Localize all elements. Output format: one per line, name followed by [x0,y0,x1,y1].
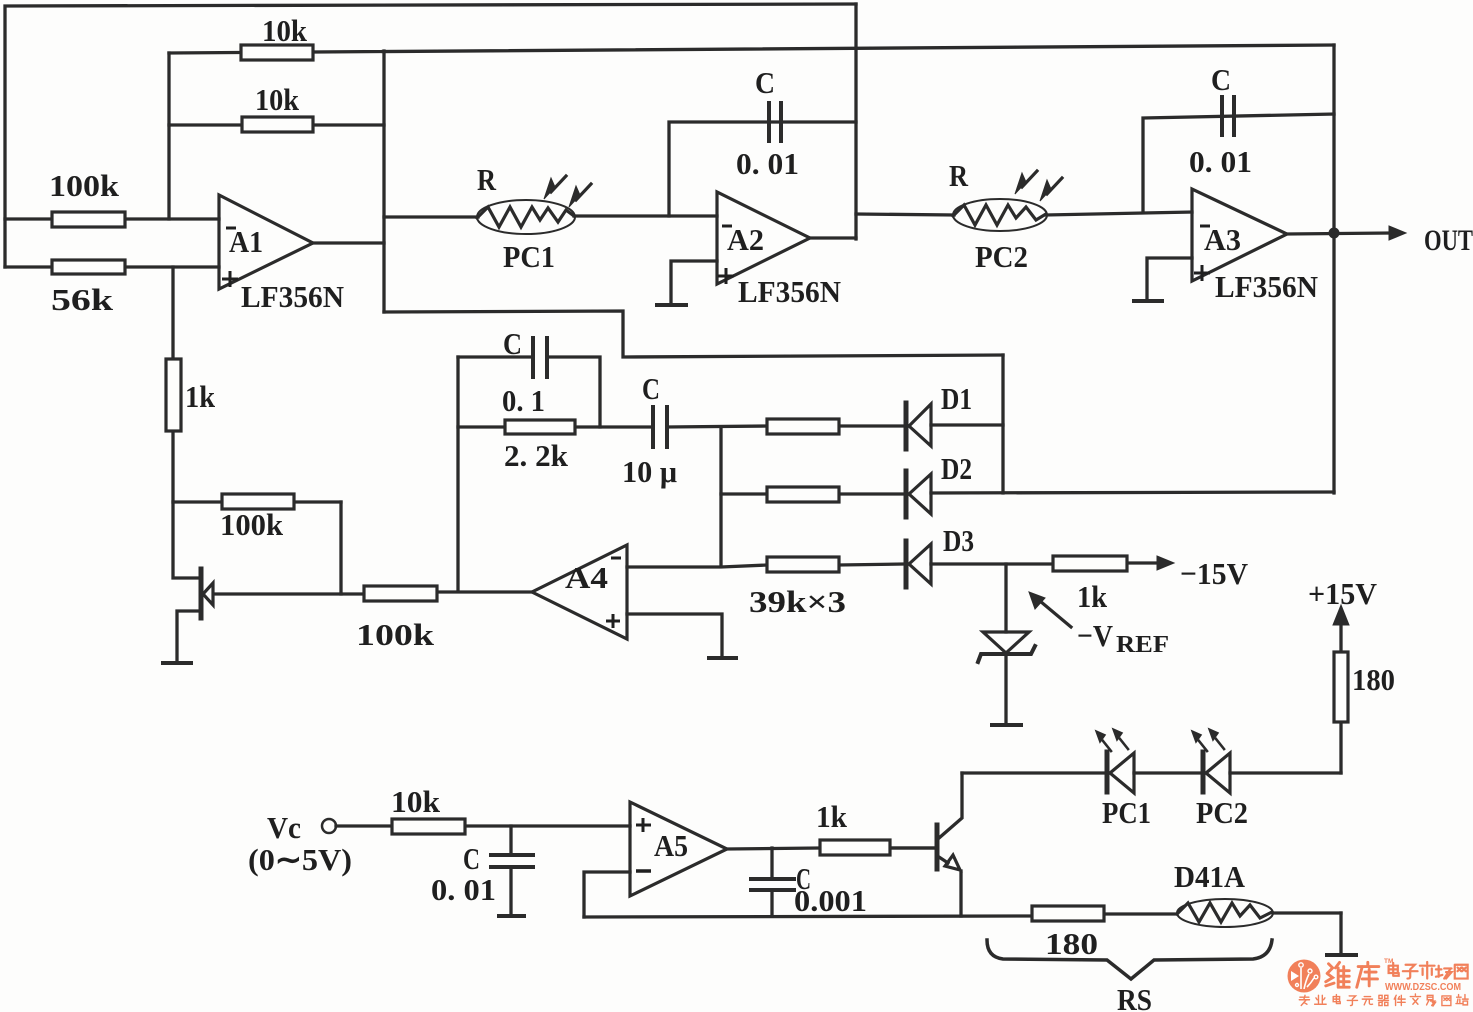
wire PC2 row left [856,214,954,215]
svg-text:2. 2k: 2. 2k [504,438,569,473]
wire A1 inverting node vertical [167,53,170,219]
resistor 39k (D3 row) [767,557,839,572]
light arrows PC1 [544,176,591,207]
wire A1 output [313,241,384,244]
svg-text:10k: 10k [255,82,300,117]
wire OUT bus vertical x=1334 [1332,45,1335,493]
arrow +15V [1333,605,1349,625]
svg-text:TM: TM [1384,958,1393,965]
svg-text:−15V: −15V [1180,556,1249,591]
watermark slogan 专业电子元器件交易网站 [1299,994,1468,1006]
resistor 10k (second feedback) [242,117,313,132]
svg-text:1k: 1k [185,379,216,414]
wire Q2 base from 1k [890,846,934,849]
minus tick A2 [722,225,732,228]
photoresistor PC2 [953,199,1047,231]
photoresistor D41A [1177,899,1273,927]
wire A1 inv input row [5,217,219,220]
terminal Vc [322,819,336,833]
ground A4 [709,656,736,660]
zener diode -VREF [978,632,1035,662]
svg-text:D1: D1 [941,381,972,416]
svg-text:OUT: OUT [1424,224,1473,257]
wire PC2 row right to A3 inv [1046,212,1192,215]
svg-text:C: C [503,326,522,361]
wire Q2 emitter drop [959,871,962,916]
wire C0.01 drop [509,826,512,915]
resistor 100k (Q1 drain to gate) [222,494,294,509]
capacitor C 0.001 [751,879,794,890]
resistor 1k (vertical, A1 + node) [166,359,181,431]
resistor 39k (D1 row) [767,419,839,434]
svg-text:100k: 100k [49,168,120,203]
wire A3 + input to ground [1147,258,1192,300]
wire A2 output [810,236,856,239]
resistor 180 (bottom row) [1032,906,1104,921]
minus tick A1 [226,227,236,230]
diode D2 [906,471,931,517]
svg-text:R: R [477,162,497,197]
svg-text:PC2: PC2 [975,239,1028,274]
wire A1 + node down through 1k [173,267,199,578]
svg-text:D3: D3 [943,523,974,558]
wire Q1 source lead to ground [177,611,200,662]
svg-text:+15V: +15V [1308,576,1378,611]
svg-text:180: 180 [1045,926,1098,961]
wire D41A right to ground [1339,913,1342,954]
transistor Q2 [937,825,960,870]
resistor 1k (A5 output) [820,840,890,855]
svg-text:WWW.DZSC.COM: WWW.DZSC.COM [1385,982,1461,993]
plus tick A1 [222,271,238,287]
svg-text:A4: A4 [565,560,608,595]
svg-text:D2: D2 [941,451,972,486]
wire Vc input row [336,824,630,827]
wire 100k#2 gate row [214,592,364,595]
svg-text:0. 1: 0. 1 [502,383,545,418]
wire vertical x=721 C10u node down to D3 row [719,427,722,564]
wire -15V lead [1127,561,1158,564]
svg-text:0.001: 0.001 [794,883,867,918]
svg-text:REF: REF [1116,632,1169,658]
resistor 10k (Vc input) [392,819,465,834]
wire A3 output to OUT [1287,233,1390,234]
wire A4 + input to ground [627,614,722,657]
wire C0.001 drop [770,848,773,916]
svg-text:100k: 100k [220,507,284,542]
svg-text:LF356N: LF356N [738,274,841,309]
plus tick A4 [606,614,620,628]
svg-text:C: C [755,65,775,100]
resistor 180 (vertical +15V) [1334,652,1348,722]
plus tick A5 [636,818,651,832]
svg-text:10 μ: 10 μ [622,454,677,489]
wire top feedback box A2out to 100k/56k [5,4,856,267]
svg-text:R: R [949,158,969,193]
ground A3 [1134,299,1162,303]
svg-text:56k: 56k [51,282,114,317]
minus tick A3 [1200,225,1210,228]
ground zener [992,723,1021,727]
op-amp A1 [219,195,313,289]
wire A1 + input row [5,265,219,268]
svg-text:C: C [463,841,480,876]
wire A2 output bus vertical x=856 [854,4,857,239]
resistor 100k (A1 inv input) [52,212,125,227]
svg-text:39k×3: 39k×3 [749,584,846,619]
minus tick A5 [636,869,651,873]
svg-text:PC1: PC1 [1102,795,1151,830]
capacitor C 0.01 (A2 feedback) [769,103,781,141]
ground D41A [1327,953,1356,957]
wire Q2 collector [939,773,962,838]
wire A2 + input to ground [671,261,717,304]
wire D3 row A4 inv to junction [627,564,1053,567]
wire PC1 row left [384,215,478,218]
op-amp A4 (points left) [532,545,627,639]
light arrows PC2 [1015,171,1062,201]
svg-text:10k: 10k [262,13,308,48]
resistor 56k (A1 + input) [52,260,125,274]
resistor 10k (top feedback) [241,45,313,60]
op-amp A3 [1192,189,1287,281]
wire A4 left node vertical [456,357,459,591]
capacitor C 0.01 (A3 feedback) [1222,97,1234,135]
wire 2.2k / C0.1 row [458,426,767,427]
wire PC1 row right to A2 inv [574,214,717,217]
wire A1 output bus vertical x=384 [382,51,385,312]
LED PC1 [1096,729,1134,793]
svg-text:RS: RS [1117,982,1152,1012]
watermark logo circle [1288,960,1321,993]
capacitor C 10u [653,407,667,447]
LED PC2 [1192,729,1230,793]
svg-text:1k: 1k [816,799,848,834]
resistor 2.2k [505,420,575,434]
svg-text:(0∼5V): (0∼5V) [248,842,352,877]
arrow -15V [1157,556,1174,570]
ground Q1 [163,661,191,665]
arrow -VREF [1029,592,1071,627]
svg-text:180: 180 [1352,662,1395,697]
photoresistor PC1 [477,200,575,234]
plus tick A2 [718,268,734,284]
svg-text:A5: A5 [654,828,688,863]
watermark text 电子市场网 [1389,962,1468,979]
wire 100k#1 right drop to gate [339,502,342,594]
svg-text:−V: −V [1077,618,1114,653]
wire 10k#2 row [169,123,384,126]
wire A2 feedback loop [669,122,856,216]
wire A5 feedback [584,872,630,917]
resistor 100k (gate row) [364,586,437,601]
svg-text:C: C [642,371,660,406]
capacitor C 0.1 [533,338,547,377]
svg-text:Vc: Vc [267,810,301,845]
op-amp A2 [717,192,810,284]
wire long feedback line OUT to A1 inverting node [169,45,1334,53]
brace Rs [987,940,1272,979]
minus tick A4 [611,557,621,560]
op-amp A5 [630,802,727,896]
wire D1 row [839,425,1003,426]
diode D3 [906,541,931,587]
wire +15V arrow stem and 180 to LED row [1339,622,1342,773]
capacitor C 0.01 (Vc) [491,855,533,867]
wire 100k#1 row [173,500,341,503]
plus tick A3 [1194,265,1210,281]
svg-text:10k: 10k [391,784,441,819]
terminal bar C0.01 [499,914,524,918]
node dot OUT [1329,228,1340,239]
wire LED row [962,771,1341,774]
watermark text 维库 [1326,962,1379,987]
svg-text:PC2: PC2 [1196,795,1248,830]
svg-text:1k: 1k [1077,579,1108,614]
wire A5 output row [727,848,934,849]
svg-text:0. 01: 0. 01 [431,872,496,907]
svg-text:D41A: D41A [1174,859,1246,894]
resistor 1k (-15V) [1053,556,1127,571]
svg-text:A2: A2 [727,222,764,257]
wire vertical x=1003 down to D2 row [1001,355,1004,493]
transistor Q1 [201,569,213,618]
svg-text:LF356N: LF356N [241,279,344,314]
wire D2 row [721,492,1334,494]
wire zener branch down [1004,564,1007,724]
arrow OUT [1389,226,1406,240]
svg-text:100k: 100k [356,617,435,652]
ground A2 [657,303,686,307]
wire jog A1 bus to diode network top [384,311,1003,357]
wire A3 feedback loop [1143,114,1334,212]
resistor 39k (D2 row) [767,487,839,502]
wire A4 output row [437,590,532,593]
svg-text:0. 01: 0. 01 [1189,144,1252,179]
wire C0.1 parallel loop [458,357,600,427]
svg-text:C: C [1211,62,1231,97]
svg-text:LF356N: LF356N [1215,269,1318,304]
wire bottom row [584,913,1341,917]
diode D1 [906,403,931,449]
svg-text:PC1: PC1 [503,239,555,274]
svg-text:0. 01: 0. 01 [736,146,799,181]
